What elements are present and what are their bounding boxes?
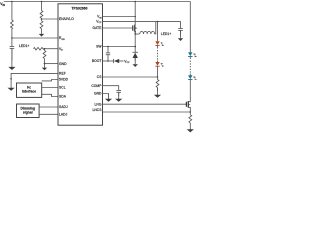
resistor R6 sense <box>156 77 159 91</box>
transistor Q2 (linear NMOS) <box>186 97 190 112</box>
svg-text:GATE: GATE <box>93 26 103 30</box>
svg-text:5VDD: 5VDD <box>59 78 69 82</box>
ground arrow below R6 <box>154 88 161 98</box>
ground arrow below D2 <box>133 58 138 67</box>
ground arrow below C4 <box>115 92 122 102</box>
junction VD node <box>44 48 46 50</box>
junction VIN wire <box>134 16 136 18</box>
wire VCC pin to output cap corner <box>103 22 181 29</box>
wire R4 to VD pin <box>45 48 59 50</box>
junction inductor input <box>134 33 136 35</box>
wire R5 bottom to GND pin <box>45 63 59 65</box>
ground arrow below R3 <box>39 31 44 37</box>
junction boot cap bottom <box>107 60 109 62</box>
svg-text:signal: signal <box>23 111 33 115</box>
svg-text:BOOT: BOOT <box>92 59 102 63</box>
svg-text:SW: SW <box>96 45 102 49</box>
capacitor C4 comp <box>116 91 121 96</box>
wire Q1 source to inductor <box>135 33 139 35</box>
svg-text:LNG: LNG <box>95 103 102 107</box>
ground arrow below REF branch <box>8 81 15 91</box>
capacitor C1 (RON node to gnd) <box>10 38 15 61</box>
wire dimming to LADJ pin <box>39 113 58 115</box>
wire BOOT pin <box>103 60 114 62</box>
resistor R5 (VD node down) <box>43 49 46 64</box>
wire LNG pin to Q2 gate <box>103 103 187 105</box>
LED D5 blue <box>188 52 197 59</box>
wire VIN pin to drain vertical <box>103 16 136 18</box>
junction on VIN rail at R1 <box>11 1 13 3</box>
transistor Q1 (buck NMOS) <box>133 2 138 35</box>
junction EN node <box>41 18 43 20</box>
wire SW net vertical <box>134 32 136 53</box>
svg-text:SDA: SDA <box>59 95 67 99</box>
wire SW pin <box>103 46 136 48</box>
svg-text:EN/UVLO: EN/UVLO <box>59 17 74 21</box>
junction LED1+ node <box>157 21 159 23</box>
resistor R7 linear sense <box>189 112 192 126</box>
wire VIN rail right corner down (blue string top) <box>189 2 191 53</box>
wire COMP pin network <box>103 86 119 91</box>
Dimming signal box <box>17 104 40 118</box>
inductor L1 <box>140 31 155 34</box>
wire VIN rail <box>4 1 191 3</box>
ground arrow below C1 <box>8 49 15 70</box>
svg-text:GND: GND <box>94 92 102 96</box>
svg-text:SADJ: SADJ <box>59 105 68 109</box>
wire inductor to LED1+ rail <box>155 22 156 34</box>
junction on VIN rail at divider <box>41 1 43 3</box>
LED D3 red <box>155 41 164 48</box>
junction LNCS node <box>190 111 192 113</box>
wire REF pin to left and down <box>11 73 58 80</box>
resistor R1 (VIN to RON node) <box>11 2 14 39</box>
svg-text:interface: interface <box>22 90 36 94</box>
wire GND pin right <box>103 94 109 96</box>
wire red string top <box>157 22 159 41</box>
op-amp U1 TPS92660 IC box <box>58 4 103 125</box>
svg-text:LED1+: LED1+ <box>19 44 29 48</box>
junction boot cap top <box>107 46 109 48</box>
LED D4 red <box>155 61 164 78</box>
junction RON node <box>11 37 13 39</box>
wire dimming to SADJ pin <box>39 106 58 108</box>
diode D2 catch (cathode up) <box>133 52 138 61</box>
wire red string dots <box>157 51 159 60</box>
svg-text:LED1+: LED1+ <box>161 32 171 36</box>
wire LNCS pin to Q2 source <box>103 111 191 113</box>
junction SW wire <box>134 46 136 48</box>
resistor R4 (LED1+ to VD node, horizontal) <box>34 47 45 50</box>
junction on VIN rail at Q1 drain <box>134 1 136 3</box>
wire I2C to SCL pin <box>42 87 58 89</box>
resistor R2 (VIN to EN node) <box>40 2 43 20</box>
wire RON node to RON pin <box>12 37 58 39</box>
ground arrow below GND pin <box>105 94 112 102</box>
junction CS node <box>157 76 159 78</box>
capacitor C3 output <box>178 29 183 35</box>
svg-text:COMP: COMP <box>91 84 102 88</box>
svg-text:TPS92660: TPS92660 <box>71 7 87 11</box>
diode D1 boot (cathode left) <box>114 59 124 63</box>
ground below R7 <box>187 126 194 132</box>
I2C interface box <box>17 83 42 97</box>
LED D6 blue <box>188 74 197 98</box>
wire GATE pin to Q1 gate <box>103 27 134 29</box>
wire I2C to SDA pin <box>42 94 58 96</box>
junction Q1 source node <box>134 31 136 33</box>
svg-text:SCL: SCL <box>59 86 66 90</box>
ground arrow below C3 <box>178 30 183 41</box>
capacitor C2 boot <box>106 47 110 62</box>
svg-text:LNCS: LNCS <box>92 108 102 112</box>
wire EN node to EN/UVLO pin <box>42 18 59 20</box>
resistor R3 (EN node to gnd) <box>40 19 43 31</box>
wire blue string dots <box>189 61 191 73</box>
wire I2C to 5VDD pin <box>42 80 58 81</box>
ground arrow below R5 <box>42 64 47 71</box>
junction R5 bottom <box>44 63 46 65</box>
junction on REF vertical <box>10 78 12 80</box>
svg-text:REF: REF <box>59 72 66 76</box>
svg-text:LADJ: LADJ <box>59 113 68 117</box>
svg-text:CS: CS <box>97 75 102 79</box>
wire CS pin to red string bottom <box>103 76 158 78</box>
svg-text:GND: GND <box>59 62 67 66</box>
